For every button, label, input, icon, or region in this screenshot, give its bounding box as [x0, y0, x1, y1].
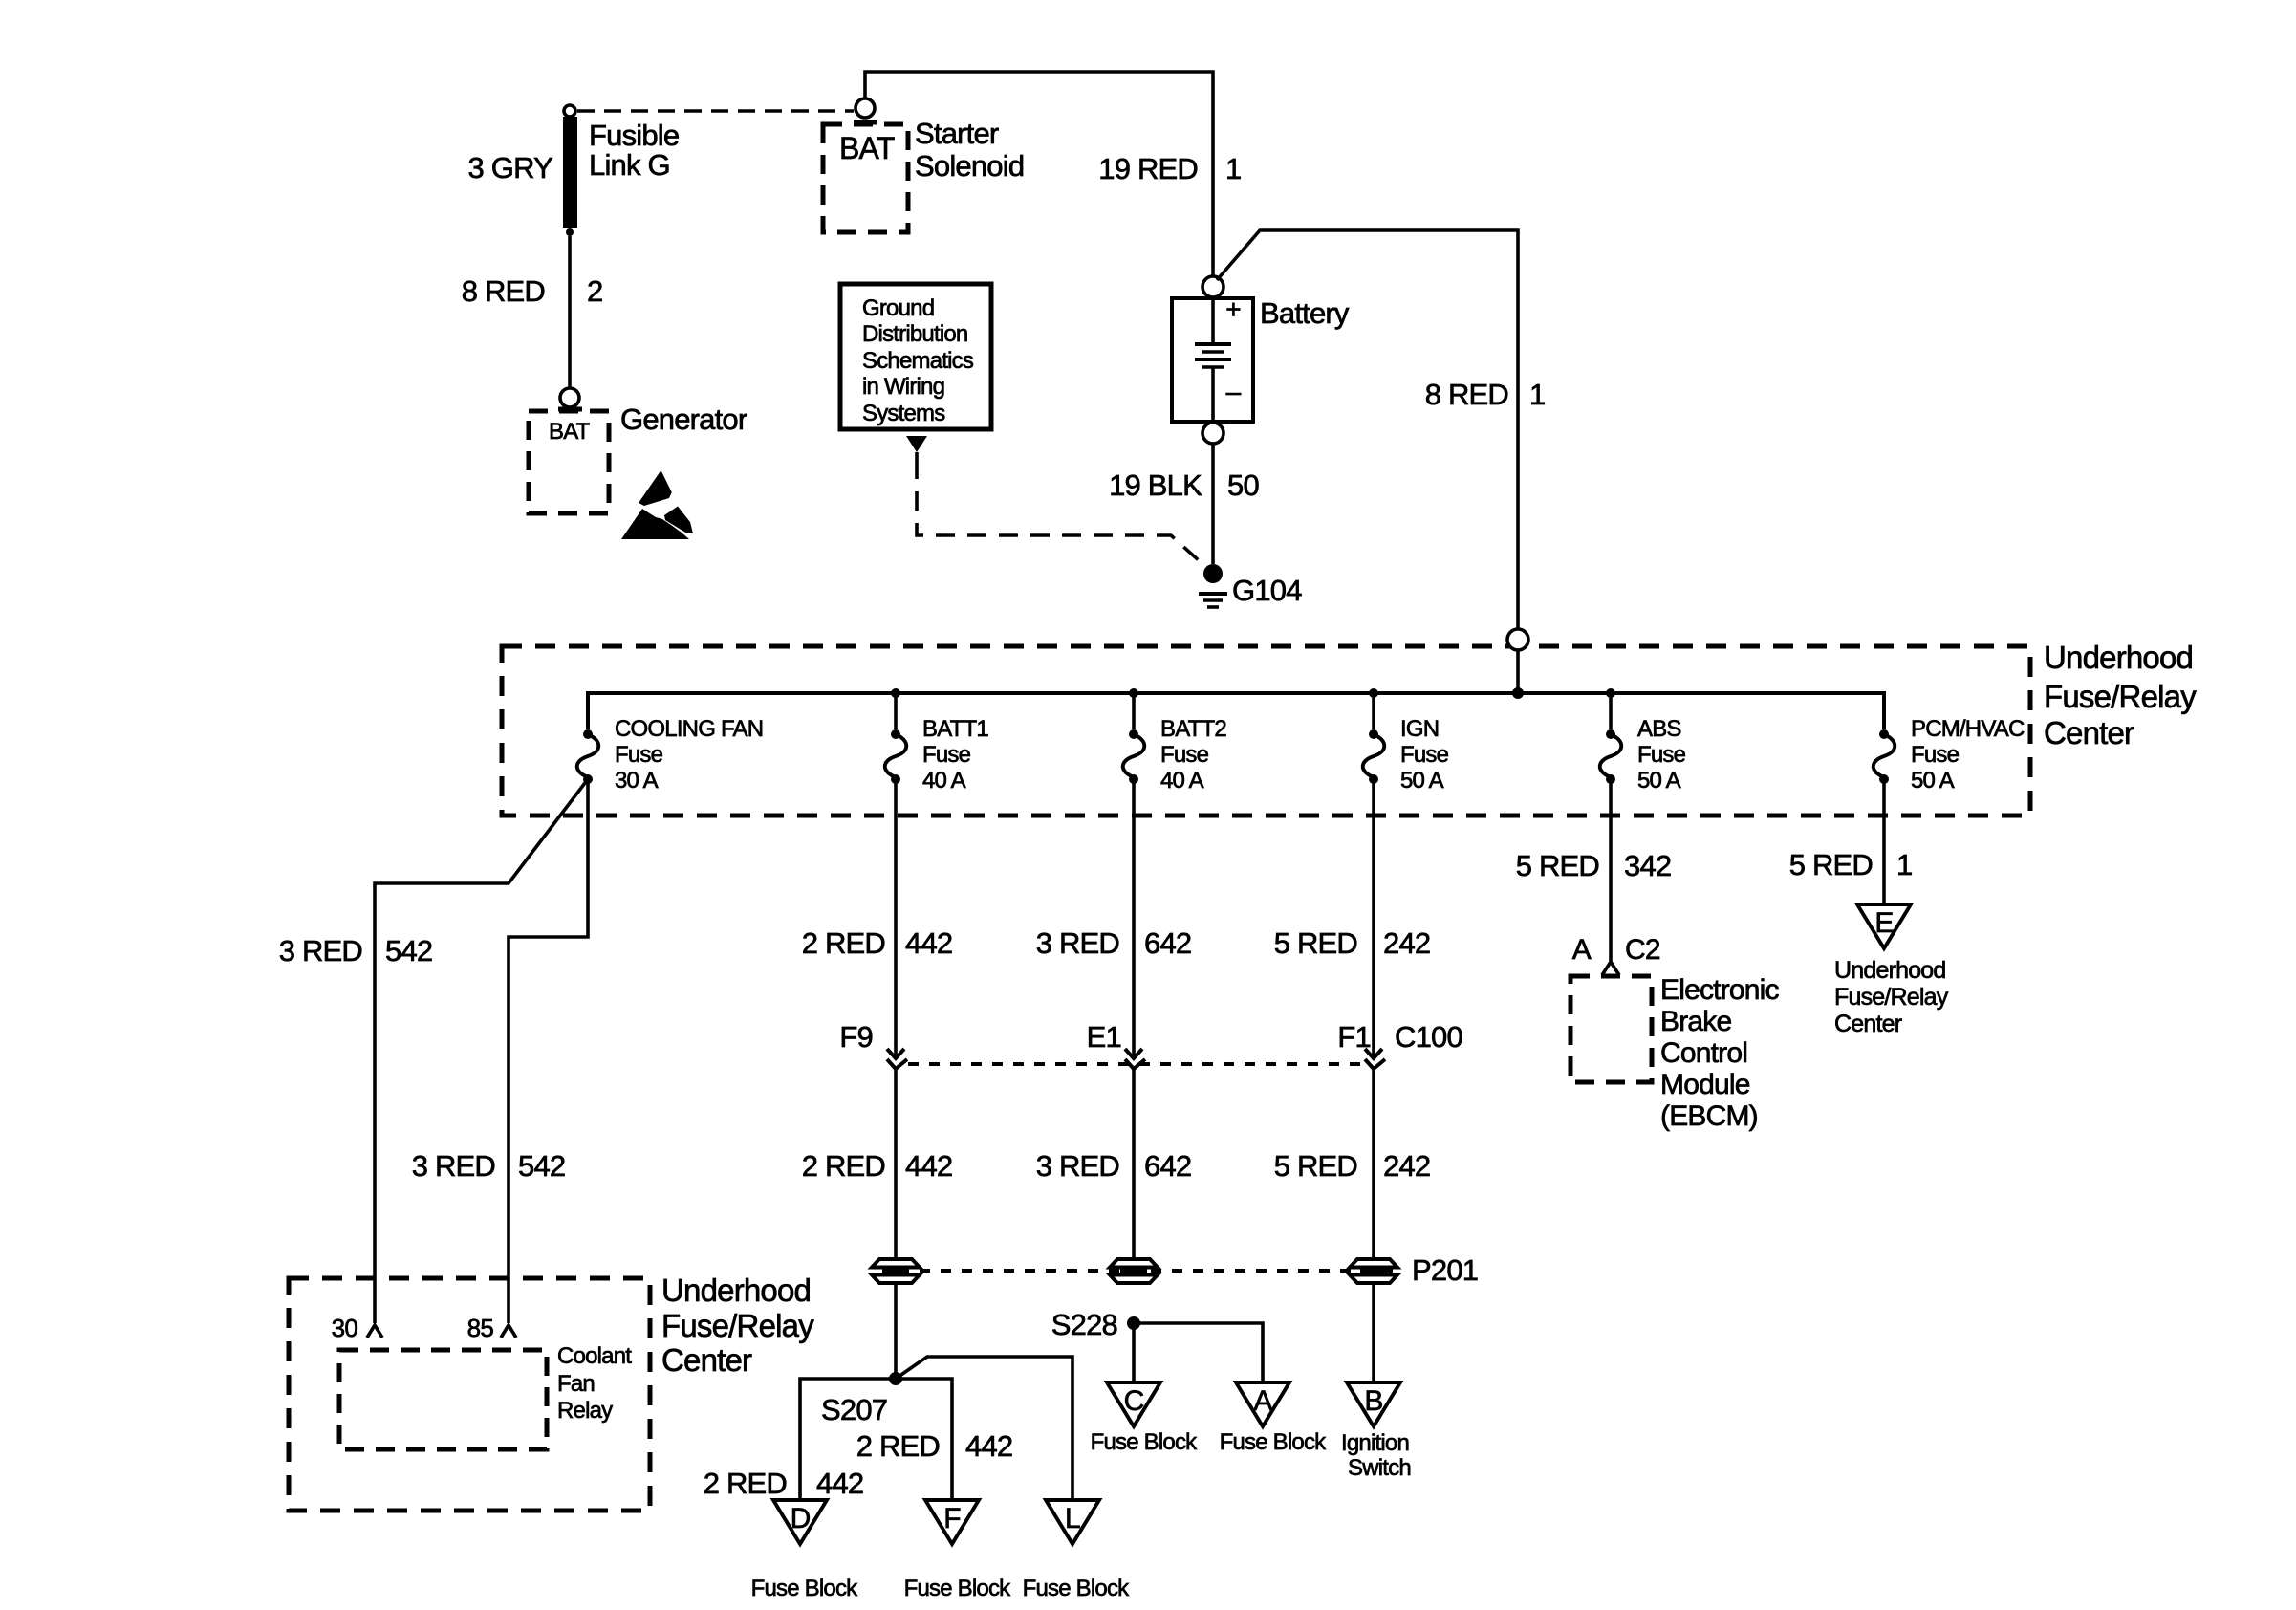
fusible link G — [563, 105, 577, 236]
svg-text:5 RED: 5 RED — [1274, 1149, 1357, 1183]
fuse BATT2 40A — [1123, 716, 1227, 794]
svg-text:Brake: Brake — [1660, 1006, 1731, 1037]
svg-text:50: 50 — [1227, 468, 1259, 502]
label 8 RED 2 — [462, 274, 603, 308]
wire ABS fuse to EBCM — [1609, 779, 1613, 961]
svg-text:19 RED: 19 RED — [1098, 152, 1198, 185]
label 5 RED 242 (upper) — [1274, 926, 1431, 960]
EBCM — [1570, 976, 1652, 1082]
fuse BATT1 40A — [885, 716, 989, 794]
svg-text:F1: F1 — [1337, 1020, 1371, 1054]
wire S228 to C — [1132, 1323, 1136, 1382]
bus junctions — [891, 687, 1615, 699]
dashed wire note box to G104 — [917, 460, 1210, 571]
svg-text:5 RED: 5 RED — [1274, 926, 1357, 960]
svg-text:2 RED: 2 RED — [802, 1149, 885, 1183]
svg-text:Fuse: Fuse — [922, 742, 971, 768]
connector D — [773, 1500, 827, 1544]
svg-text:542: 542 — [385, 934, 432, 968]
dashed wire fusible link to starter solenoid — [577, 109, 854, 113]
generator — [529, 411, 609, 513]
svg-text:G104: G104 — [1232, 574, 1302, 607]
svg-text:Ground: Ground — [862, 295, 934, 321]
svg-text:Fuse: Fuse — [1911, 742, 1960, 768]
svg-text:S207: S207 — [821, 1393, 887, 1426]
wire S207 to L — [896, 1357, 1072, 1500]
svg-text:1: 1 — [1225, 152, 1241, 185]
svg-text:Battery: Battery — [1260, 296, 1350, 330]
svg-text:+: + — [1225, 294, 1241, 324]
battery — [1172, 294, 1253, 422]
svg-text:Fuse Block: Fuse Block — [1091, 1429, 1199, 1455]
svg-text:3 RED: 3 RED — [1036, 1149, 1119, 1183]
svg-text:Systems: Systems — [862, 401, 945, 426]
label Ignition Switch — [1341, 1430, 1411, 1481]
svg-text:–: – — [1226, 377, 1242, 406]
svg-text:30 A: 30 A — [615, 768, 659, 794]
battery negative terminal — [1202, 423, 1224, 444]
svg-text:Schematics: Schematics — [862, 348, 974, 374]
label 3 RED 642 (lower) — [1036, 1149, 1192, 1183]
svg-text:542: 542 — [518, 1149, 565, 1183]
battery positive terminal — [1202, 276, 1224, 297]
generator BAT terminal — [558, 388, 582, 409]
svg-text:40 A: 40 A — [922, 768, 966, 794]
svg-text:Distribution: Distribution — [862, 321, 967, 347]
fuse COOLING FAN 30A — [577, 716, 763, 794]
svg-text:Fuse/Relay: Fuse/Relay — [2044, 679, 2197, 714]
svg-text:Switch: Switch — [1348, 1455, 1411, 1481]
wire cooling fan fuse to relay pin 85 — [509, 779, 588, 1323]
svg-text:5 RED: 5 RED — [1516, 849, 1599, 882]
wire S228 to A — [1134, 1323, 1263, 1382]
svg-text:50 A: 50 A — [1637, 768, 1681, 794]
fuse PCM/HVAC 50A — [1874, 716, 2025, 794]
pin 85 terminal — [501, 1325, 516, 1338]
arrow from note box — [906, 436, 927, 460]
svg-text:342: 342 — [1624, 849, 1671, 882]
svg-text:Solenoid: Solenoid — [915, 149, 1024, 183]
svg-text:Module: Module — [1660, 1069, 1750, 1100]
underhood fuse/relay center (top) — [502, 646, 2030, 816]
label Underhood Fuse/Relay Center (E) — [1834, 957, 1949, 1037]
svg-text:Underhood: Underhood — [2044, 640, 2193, 675]
connector E — [1857, 904, 1911, 948]
svg-text:Underhood: Underhood — [661, 1273, 811, 1308]
svg-text:442: 442 — [905, 926, 952, 960]
svg-text:442: 442 — [816, 1467, 863, 1500]
svg-text:(EBCM): (EBCM) — [1660, 1100, 1758, 1132]
grommet P201 (BATT1) — [872, 1259, 920, 1283]
label 19 BLK 50 — [1109, 468, 1259, 502]
svg-text:F9: F9 — [839, 1020, 873, 1054]
starter solenoid BAT terminal — [854, 98, 877, 122]
svg-text:in Wiring: in Wiring — [862, 374, 944, 400]
svg-text:50 A: 50 A — [1911, 768, 1955, 794]
label 8 RED 1 — [1425, 378, 1546, 411]
svg-text:2 RED: 2 RED — [856, 1429, 940, 1463]
svg-text:A: A — [1253, 1385, 1272, 1417]
svg-text:Generator: Generator — [620, 402, 747, 436]
svg-text:F: F — [943, 1503, 961, 1534]
svg-text:COOLING FAN: COOLING FAN — [615, 716, 763, 742]
svg-text:3 RED: 3 RED — [279, 934, 362, 968]
svg-text:1: 1 — [1896, 848, 1912, 881]
wire PCM/HVAC fuse to E — [1882, 779, 1886, 904]
svg-text:ABS: ABS — [1637, 716, 1681, 742]
wire BATT2 fuse to E1 — [1132, 779, 1136, 1058]
wire F1 to P201 — [1372, 1069, 1375, 1260]
label Fusible Link G — [589, 119, 679, 182]
grommet P201 (IGN) — [1350, 1259, 1397, 1283]
wire IGN fuse to F1 — [1372, 779, 1375, 1058]
label 5 RED 1 — [1789, 848, 1913, 881]
label 19 RED 1 — [1098, 152, 1241, 185]
coolant fan relay — [339, 1350, 547, 1449]
fuse IGN 50A — [1363, 716, 1449, 794]
svg-text:242: 242 — [1383, 1149, 1430, 1183]
svg-text:50 A: 50 A — [1400, 768, 1444, 794]
fuse ABS 50A — [1600, 716, 1686, 794]
svg-text:Fuse: Fuse — [615, 742, 663, 768]
svg-text:40 A: 40 A — [1160, 768, 1204, 794]
label 2 RED 442 (lower) — [802, 1149, 953, 1183]
svg-text:C100: C100 — [1395, 1020, 1462, 1054]
splice S207 — [889, 1372, 902, 1385]
label Electronic Brake Control Module (EBCM) — [1660, 974, 1780, 1132]
svg-text:85: 85 — [467, 1314, 494, 1342]
label Starter Solenoid — [915, 117, 1024, 183]
svg-text:1: 1 — [1529, 378, 1545, 411]
connector E1 — [1125, 1049, 1145, 1069]
svg-text:3 RED: 3 RED — [412, 1149, 495, 1183]
label Underhood Fuse/Relay Center (top right) — [2044, 640, 2197, 751]
wire S207 to D — [800, 1379, 952, 1500]
svg-text:Fuse Block: Fuse Block — [751, 1576, 859, 1601]
svg-text:BAT: BAT — [839, 131, 895, 165]
connector C — [1107, 1382, 1160, 1426]
svg-text:Fuse/Relay: Fuse/Relay — [661, 1308, 814, 1343]
svg-text:2: 2 — [587, 274, 602, 308]
svg-text:C2: C2 — [1625, 934, 1660, 966]
svg-text:Coolant: Coolant — [557, 1343, 632, 1369]
svg-text:442: 442 — [905, 1149, 952, 1183]
svg-text:Underhood: Underhood — [1834, 957, 1946, 984]
svg-text:5 RED: 5 RED — [1789, 848, 1873, 881]
svg-text:8 RED: 8 RED — [462, 274, 545, 308]
svg-text:442: 442 — [965, 1429, 1012, 1463]
ESD symbol — [621, 470, 693, 539]
label 2 RED 442 (branch F) — [856, 1429, 1013, 1463]
svg-text:642: 642 — [1144, 926, 1191, 960]
wire BATT1 fuse to F9 — [894, 779, 898, 1058]
svg-text:642: 642 — [1144, 1149, 1191, 1183]
connector C100 dashed line — [908, 1062, 1367, 1066]
connector B — [1347, 1382, 1400, 1426]
svg-text:P201: P201 — [1412, 1253, 1478, 1287]
wire battery positive to 8 RED feed — [1217, 230, 1518, 629]
svg-text:Fuse Block: Fuse Block — [1220, 1429, 1328, 1455]
svg-text:19 BLK: 19 BLK — [1109, 468, 1202, 502]
svg-text:Link G: Link G — [589, 148, 670, 182]
svg-text:3 GRY: 3 GRY — [468, 151, 553, 185]
node 8 RED entry to fuse center — [1507, 629, 1528, 650]
svg-text:BATT1: BATT1 — [922, 716, 988, 742]
pin 30 terminal — [367, 1325, 382, 1338]
wire fusible link to generator — [568, 236, 572, 387]
svg-text:Fuse: Fuse — [1400, 742, 1449, 768]
svg-text:2 RED: 2 RED — [704, 1467, 787, 1500]
wire F9 to P201 — [894, 1069, 898, 1260]
svg-text:Fan: Fan — [557, 1371, 595, 1397]
connector F1 — [1365, 1049, 1385, 1069]
label Underhood Fuse/Relay Center (bottom) — [661, 1273, 814, 1378]
label 2 RED 442 (branch D) — [704, 1467, 864, 1500]
connector F — [925, 1500, 979, 1544]
label 5 RED 242 (lower) — [1274, 1149, 1431, 1183]
wire cooling fan fuse to relay pin 30 — [375, 779, 588, 1323]
svg-text:Center: Center — [2044, 715, 2134, 751]
label 3 RED 642 (upper) — [1036, 926, 1192, 960]
svg-text:BATT2: BATT2 — [1160, 716, 1226, 742]
svg-text:Relay: Relay — [557, 1398, 613, 1424]
connector L — [1046, 1500, 1099, 1544]
svg-text:PCM/HVAC: PCM/HVAC — [1911, 716, 2025, 742]
label 3 RED 542 (pin 85 wire) — [412, 1149, 566, 1183]
svg-text:Fuse Block: Fuse Block — [904, 1576, 1012, 1601]
label Coolant Fan Relay — [557, 1343, 632, 1424]
svg-text:2 RED: 2 RED — [802, 926, 885, 960]
underhood fuse/relay center (bottom) — [289, 1278, 650, 1511]
bus wire — [588, 693, 1884, 729]
svg-text:Starter: Starter — [915, 117, 999, 150]
svg-text:242: 242 — [1383, 926, 1430, 960]
label 2 RED 442 (upper) — [802, 926, 953, 960]
label 5 RED 342 — [1516, 849, 1672, 882]
connector F9 — [887, 1049, 907, 1069]
svg-text:BAT: BAT — [549, 419, 591, 445]
svg-text:8 RED: 8 RED — [1425, 378, 1508, 411]
svg-text:IGN: IGN — [1400, 716, 1439, 742]
grommet P201 (BATT2) — [1110, 1259, 1158, 1283]
svg-text:E: E — [1874, 907, 1893, 939]
wire P201 to B — [1372, 1282, 1375, 1382]
svg-text:Electronic: Electronic — [1660, 974, 1780, 1006]
svg-text:Fuse: Fuse — [1160, 742, 1209, 768]
svg-text:E1: E1 — [1087, 1020, 1121, 1054]
svg-text:Fuse/Relay: Fuse/Relay — [1834, 984, 1949, 1011]
svg-text:Fuse Block: Fuse Block — [1023, 1576, 1131, 1601]
svg-text:Ignition: Ignition — [1341, 1430, 1409, 1456]
svg-text:S228: S228 — [1051, 1308, 1117, 1341]
wire battery negative to G104 — [1211, 444, 1215, 564]
grommet P201 dashed line — [920, 1269, 1403, 1273]
label 3 RED 542 (pin 30 wire) — [279, 934, 433, 968]
bus stubs — [896, 693, 1611, 729]
svg-text:Center: Center — [1834, 1011, 1902, 1037]
svg-text:B: B — [1364, 1385, 1382, 1417]
ground G104 — [1199, 564, 1227, 607]
ground distribution schematics box — [840, 284, 991, 429]
starter solenoid — [823, 124, 908, 232]
svg-text:30: 30 — [332, 1314, 358, 1342]
svg-text:D: D — [791, 1503, 811, 1534]
svg-text:C: C — [1124, 1385, 1144, 1417]
svg-text:Fusible: Fusible — [589, 119, 679, 152]
svg-text:Fuse: Fuse — [1637, 742, 1686, 768]
wire solenoid to battery — [865, 72, 1213, 276]
svg-text:Control: Control — [1660, 1037, 1747, 1069]
svg-text:A: A — [1572, 934, 1592, 966]
wire into bus — [1516, 650, 1520, 693]
svg-text:L: L — [1065, 1503, 1080, 1534]
svg-text:3 RED: 3 RED — [1036, 926, 1119, 960]
wire E1 to P201 — [1132, 1069, 1136, 1260]
wire P201 to S207 — [894, 1282, 898, 1379]
pin A terminal of C2 — [1602, 962, 1619, 975]
svg-text:Center: Center — [661, 1342, 752, 1378]
connector A — [1236, 1382, 1289, 1426]
splice S228 — [1127, 1316, 1140, 1330]
